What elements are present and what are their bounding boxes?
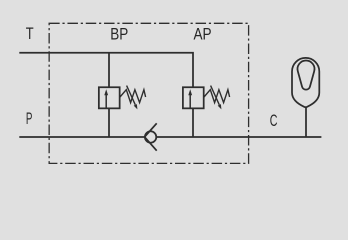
- wire left valve drop lower: [108, 108, 110, 137]
- spring V2: [204, 90, 230, 103]
- valve V2 internal arrow: [188, 89, 192, 108]
- adjust arrow V2: [211, 86, 220, 105]
- wire right valve drop lower: [192, 108, 194, 137]
- accumulator shell: [292, 58, 319, 107]
- svg-text:C: C: [270, 111, 278, 130]
- spring V1: [120, 90, 146, 103]
- svg-text:AP: AP: [194, 25, 212, 44]
- enclosure dash-dot box: [49, 23, 248, 163]
- relief valve V2 (AP) body: [183, 87, 204, 108]
- check valve seat: [145, 123, 157, 150]
- wire P line left of check valve: [19, 136, 144, 138]
- adjust arrowhead V2: [218, 104, 222, 109]
- valve V1 internal arrow: [104, 89, 108, 108]
- svg-text:BP: BP: [110, 25, 128, 44]
- svg-text:P: P: [26, 109, 33, 128]
- wire accumulator drop: [305, 107, 307, 137]
- adjust arrowhead V1: [134, 104, 138, 109]
- wire T line with corner to right valve: [19, 53, 193, 88]
- check valve circle: [145, 131, 156, 142]
- adjust arrow V1: [127, 86, 136, 105]
- accumulator bladder: [298, 60, 315, 89]
- svg-text:T: T: [26, 24, 34, 43]
- wire P-C line right of check valve: [156, 136, 321, 138]
- relief valve V1 (BP) body: [99, 87, 120, 108]
- wire left valve drop upper: [108, 53, 110, 88]
